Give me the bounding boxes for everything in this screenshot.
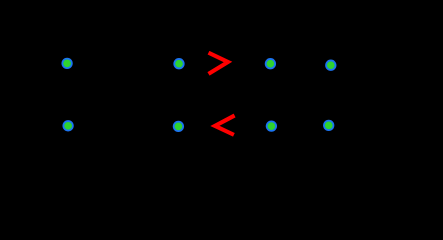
node A1	[62, 59, 72, 69]
node A2	[174, 59, 184, 68]
less-than symbol	[215, 116, 235, 135]
node D1	[267, 121, 277, 131]
node C1	[63, 121, 73, 131]
node D2	[324, 121, 334, 130]
node C2	[174, 122, 184, 131]
node B1	[266, 59, 276, 68]
greater-than symbol	[209, 53, 229, 74]
node B2	[326, 60, 336, 70]
